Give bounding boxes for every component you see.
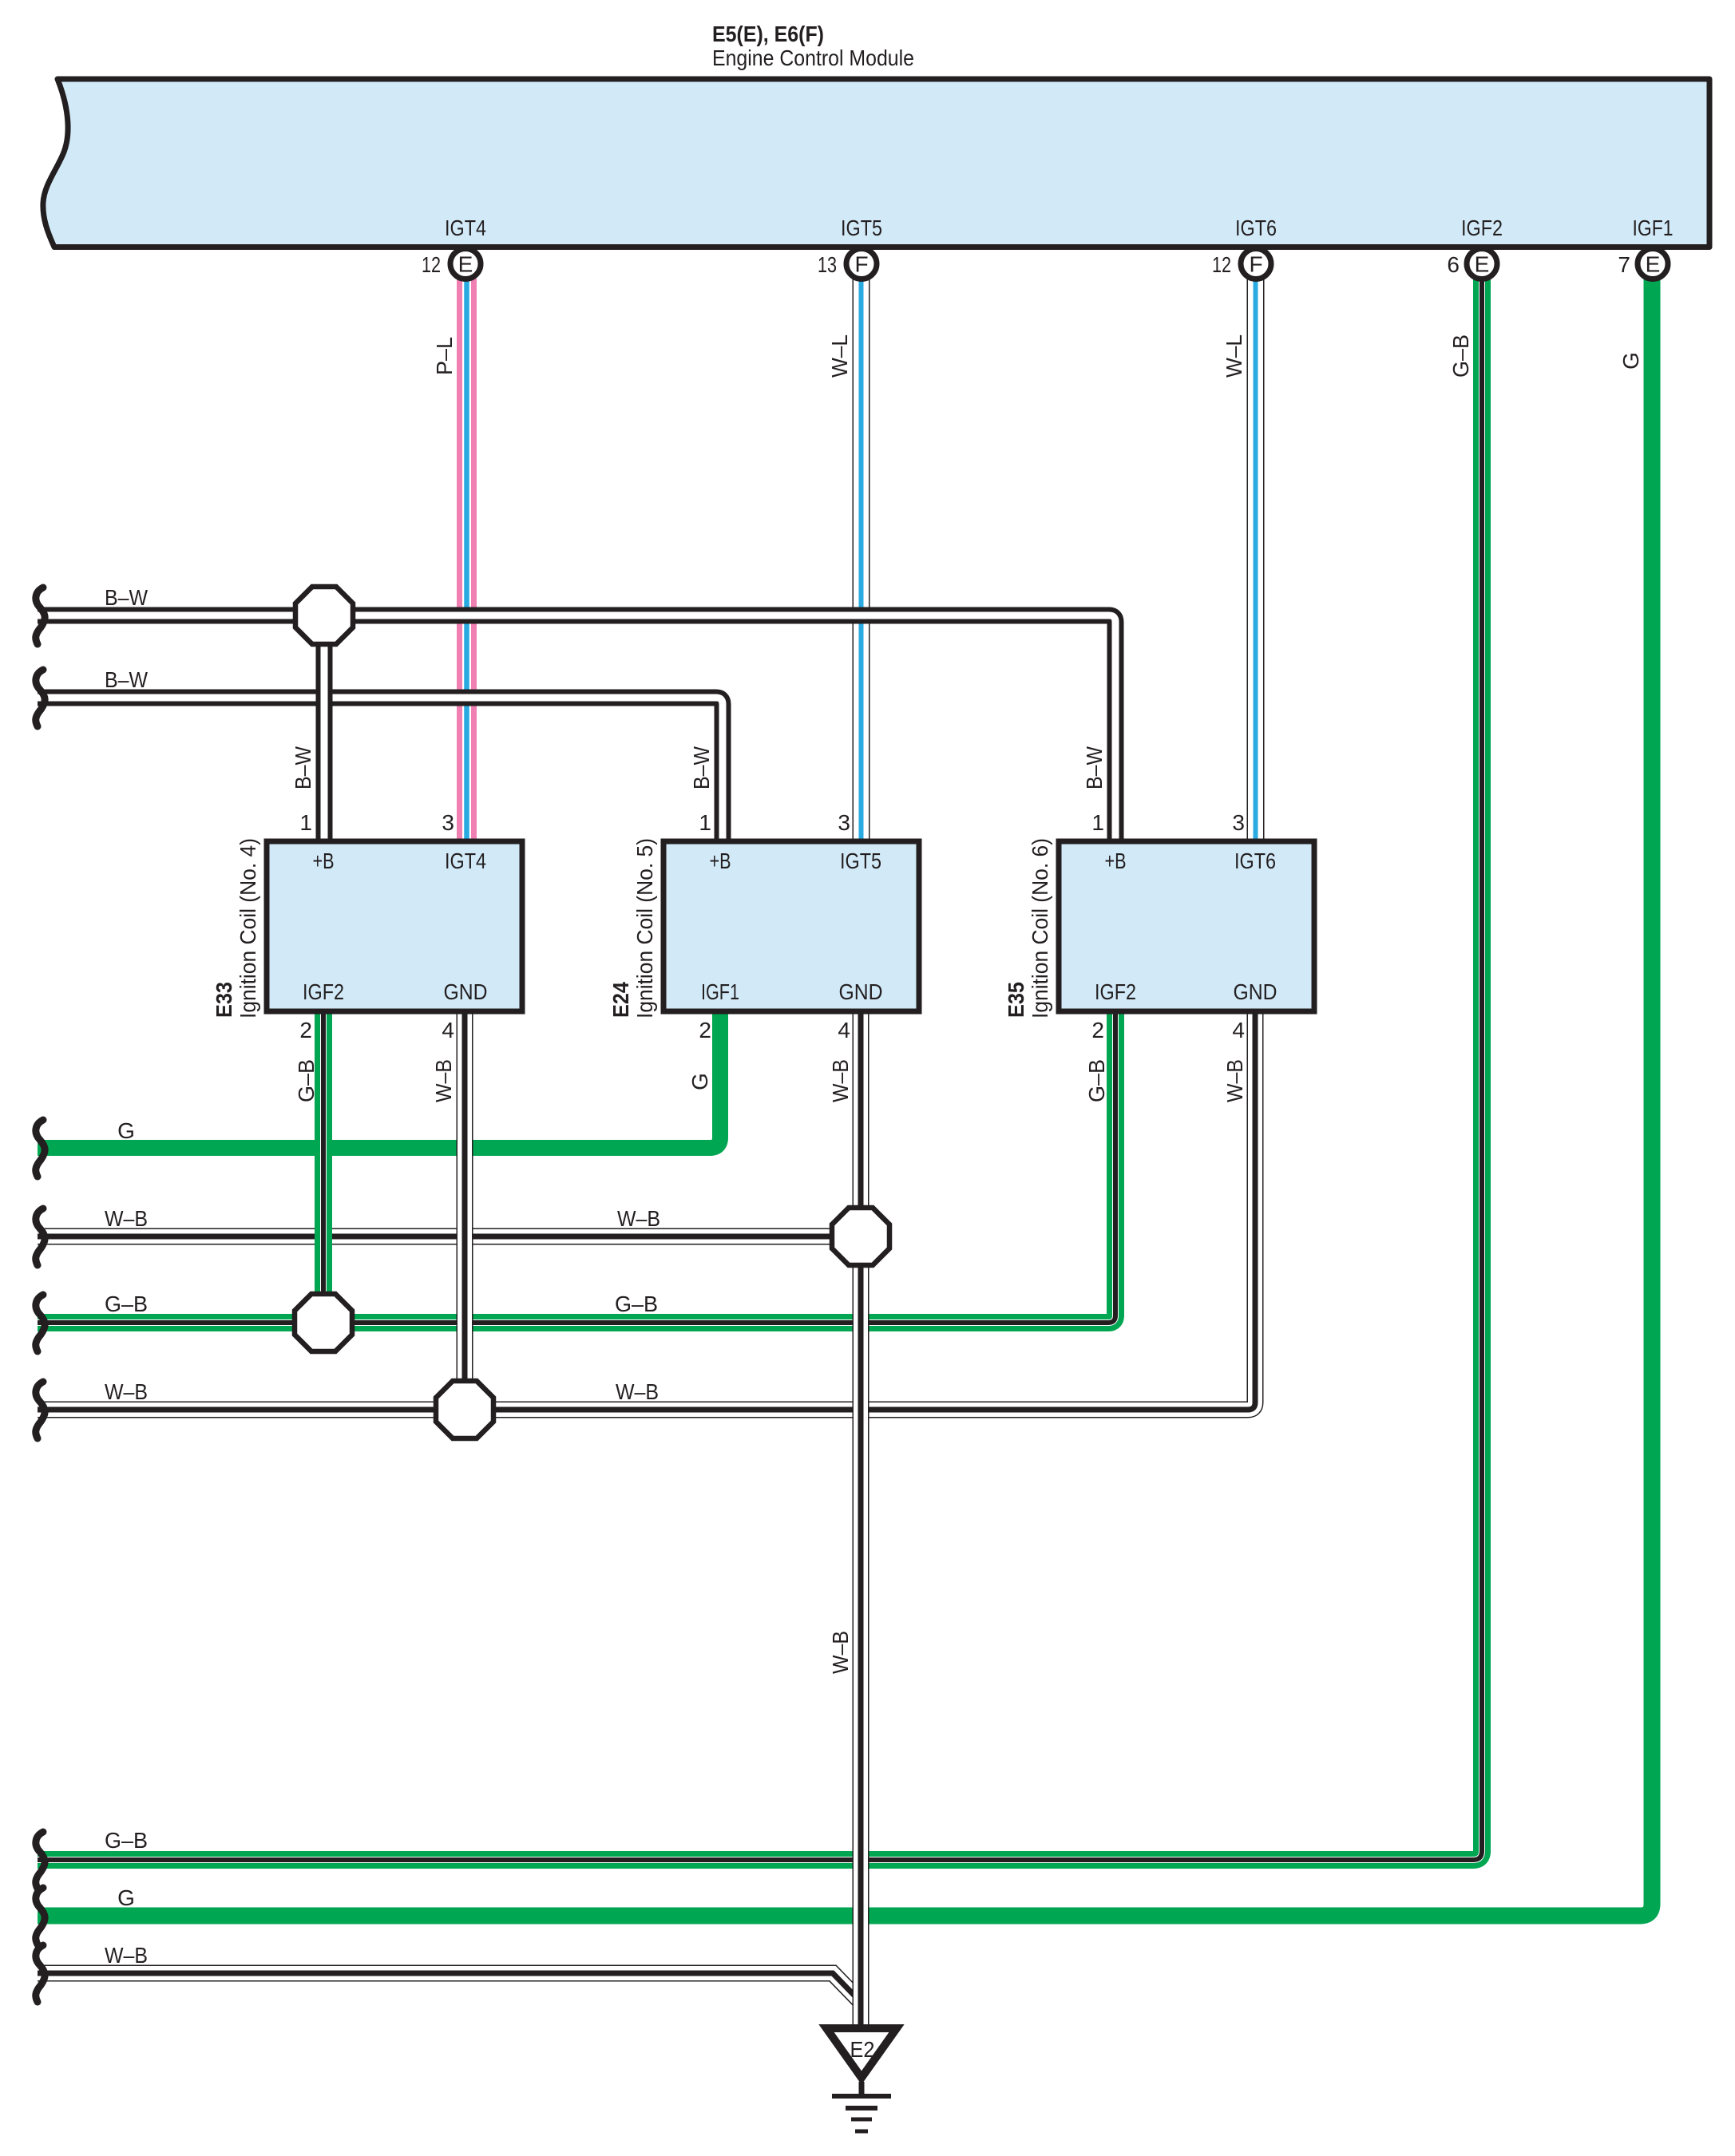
svg-text:E24: E24 [608, 982, 633, 1018]
svg-text:1: 1 [699, 810, 711, 835]
svg-text:1: 1 [1091, 810, 1104, 835]
svg-text:E35: E35 [1004, 982, 1028, 1018]
svg-text:W–B: W–B [616, 1379, 659, 1404]
svg-text:7: 7 [1618, 252, 1630, 277]
svg-text:G: G [117, 1118, 135, 1143]
svg-text:Engine Control Module: Engine Control Module [712, 45, 914, 70]
svg-text:1: 1 [299, 810, 312, 835]
svg-text:G–B: G–B [1084, 1059, 1109, 1102]
svg-text:G–B: G–B [615, 1292, 658, 1316]
svg-text:IGF2: IGF2 [1461, 216, 1503, 240]
svg-text:+B: +B [313, 849, 335, 873]
svg-text:4: 4 [838, 1018, 850, 1042]
svg-text:IGF2: IGF2 [303, 979, 344, 1004]
svg-text:12: 12 [422, 252, 441, 277]
svg-text:G–B: G–B [105, 1292, 148, 1316]
svg-text:E: E [1646, 252, 1661, 277]
svg-text:W–B: W–B [828, 1059, 853, 1102]
svg-text:B–W: B–W [105, 585, 148, 610]
svg-text:G–B: G–B [1448, 334, 1473, 378]
svg-text:B–W: B–W [689, 746, 714, 789]
svg-text:IGT5: IGT5 [841, 216, 882, 240]
svg-text:IGF1: IGF1 [701, 979, 739, 1004]
svg-text:G–B: G–B [105, 1828, 148, 1853]
svg-text:4: 4 [442, 1018, 454, 1042]
svg-text:W–L: W–L [827, 334, 852, 378]
svg-text:W–B: W–B [105, 1206, 148, 1231]
svg-text:F: F [1249, 252, 1262, 277]
svg-text:Ignition Coil (No. 6): Ignition Coil (No. 6) [1028, 838, 1052, 1019]
svg-text:IGT4: IGT4 [445, 216, 486, 240]
svg-text:E5(E), E6(F): E5(E), E6(F) [712, 22, 824, 46]
svg-text:E2: E2 [850, 2037, 875, 2062]
svg-text:+B: +B [710, 849, 731, 873]
svg-text:IGF2: IGF2 [1095, 979, 1136, 1004]
svg-text:3: 3 [1232, 810, 1245, 835]
svg-text:12: 12 [1212, 252, 1231, 277]
svg-text:W–B: W–B [617, 1206, 660, 1231]
svg-text:GND: GND [444, 979, 488, 1004]
svg-text:GND: GND [839, 979, 883, 1004]
svg-text:G: G [687, 1073, 712, 1090]
svg-text:IGT5: IGT5 [840, 849, 881, 873]
svg-text:IGF1: IGF1 [1633, 216, 1674, 240]
svg-text:4: 4 [1232, 1018, 1245, 1042]
svg-text:P–L: P–L [432, 337, 457, 375]
svg-text:3: 3 [442, 810, 454, 835]
svg-text:E: E [458, 252, 473, 277]
svg-text:E: E [1475, 252, 1490, 277]
svg-text:13: 13 [818, 252, 837, 277]
svg-text:W–L: W–L [1222, 334, 1246, 378]
svg-text:W–B: W–B [105, 1943, 148, 1968]
svg-text:W–B: W–B [431, 1059, 456, 1102]
svg-text:G: G [1618, 352, 1643, 370]
svg-text:W–B: W–B [1222, 1059, 1247, 1102]
svg-text:W–B: W–B [828, 1631, 853, 1674]
svg-text:2: 2 [1091, 1018, 1104, 1042]
svg-text:E33: E33 [212, 982, 236, 1018]
svg-text:B–W: B–W [1082, 746, 1107, 789]
svg-text:IGT4: IGT4 [445, 849, 486, 873]
svg-text:IGT6: IGT6 [1235, 216, 1277, 240]
svg-text:2: 2 [299, 1018, 312, 1042]
svg-text:Ignition Coil (No. 5): Ignition Coil (No. 5) [632, 838, 657, 1019]
svg-text:B–W: B–W [105, 667, 148, 692]
svg-text:W–B: W–B [105, 1379, 148, 1404]
svg-text:6: 6 [1447, 252, 1460, 277]
svg-text:G: G [117, 1885, 135, 1910]
svg-text:2: 2 [699, 1018, 711, 1042]
svg-text:IGT6: IGT6 [1234, 849, 1276, 873]
svg-text:+B: +B [1105, 849, 1127, 873]
svg-text:Ignition Coil (No. 4): Ignition Coil (No. 4) [236, 838, 260, 1019]
svg-text:B–W: B–W [291, 746, 315, 789]
svg-text:G–B: G–B [294, 1059, 319, 1102]
svg-text:GND: GND [1234, 979, 1277, 1004]
svg-text:F: F [854, 252, 868, 277]
svg-text:3: 3 [838, 810, 850, 835]
